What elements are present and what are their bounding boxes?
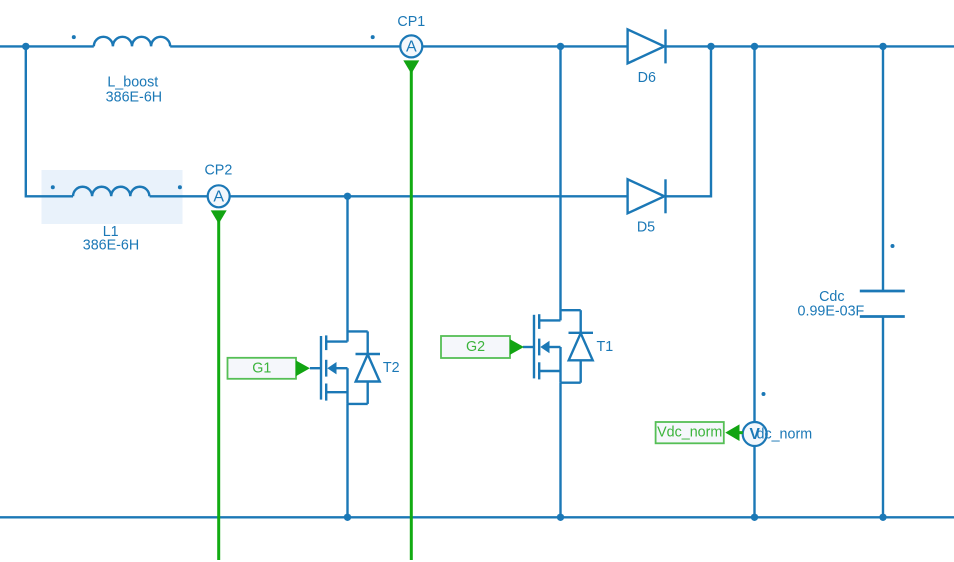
- junction: bottom rail / T1 source: [557, 514, 564, 521]
- wire: top rail from D6 cathode to right edge: [666, 45, 954, 47]
- junction: bottom rail / T2 source: [344, 514, 351, 521]
- current probe CP2 (ammeter): [208, 185, 230, 207]
- junction: top rail / T1 drain: [557, 43, 564, 50]
- svg-text:T1: T1: [597, 339, 614, 355]
- svg-text:G2: G2: [466, 339, 485, 355]
- polarity dot Vdc_norm: [762, 392, 766, 396]
- wire: row-2 rail from L1 through CP2 to D5 anode: [150, 195, 628, 197]
- diode D5: [628, 179, 666, 213]
- wire: T2 source down to bottom rail: [346, 404, 348, 517]
- junction: row-2 rail / T2 drain: [344, 193, 351, 200]
- gate signal tag G1: [228, 358, 310, 379]
- svg-text:386E-6H: 386E-6H: [106, 90, 162, 106]
- wire: top rail from L_boost through CP1 to D6 anode: [170, 45, 627, 47]
- transistor T2 (MOSFET with body diode): [310, 331, 380, 404]
- svg-text:CP1: CP1: [397, 14, 425, 30]
- svg-text:A: A: [406, 39, 417, 56]
- polarity dot L1: [51, 185, 55, 189]
- wire: bottom rail (negative bus): [0, 516, 954, 518]
- svg-text:L_boost: L_boost: [107, 75, 158, 91]
- wire: T1 drain rail up to top-rail junction: [559, 46, 561, 320]
- svg-text:D5: D5: [637, 220, 655, 236]
- polarity dot L_boost: [72, 35, 76, 39]
- wire: T2 drain rail up to row-2 junction: [346, 196, 348, 341]
- signal tag Vdc_norm: [656, 422, 743, 443]
- wire: D5 cathode up to top rail: [666, 46, 712, 196]
- junction: top rail / Vdc_norm probe: [751, 43, 758, 50]
- arrowhead CP1: [403, 60, 419, 73]
- capacitor Cdc bottom plate: [860, 315, 905, 318]
- svg-text:Vdc_norm: Vdc_norm: [657, 425, 722, 441]
- svg-text:CP2: CP2: [204, 162, 232, 178]
- wire: T1 source down to bottom rail: [559, 383, 561, 518]
- wire: Cdc bottom lead: [882, 317, 884, 518]
- junction: top rail / left vertical: [22, 43, 29, 50]
- wire: Vdc_norm probe vertical from top rail to bottom rail: [753, 46, 755, 517]
- svg-text:A: A: [213, 189, 224, 206]
- capacitor Cdc top plate: [860, 290, 905, 293]
- polarity dot Cdc: [891, 244, 895, 248]
- arrowhead CP2: [211, 210, 227, 223]
- diode D6: [628, 29, 666, 63]
- junction: bottom rail / Vdc_norm probe: [751, 514, 758, 521]
- polarity dot CP1: [371, 35, 375, 39]
- current probe CP1 (ammeter): [400, 35, 422, 57]
- inductor L_boost (4-arc coil): [94, 37, 170, 47]
- svg-text:T2: T2: [383, 360, 400, 376]
- junction: top rail / Cdc: [879, 43, 886, 50]
- wire: top rail left segment (input to L_boost): [0, 45, 94, 47]
- wire: left vertical drop and row-2 lead into L1: [26, 46, 73, 196]
- svg-text:D6: D6: [638, 70, 656, 86]
- selection highlight behind inductor L1: [42, 170, 183, 224]
- svg-text:0.99E-03F: 0.99E-03F: [798, 304, 865, 320]
- junction: bottom rail / Cdc: [879, 514, 886, 521]
- polarity dot CP2: [178, 185, 182, 189]
- svg-text:386E-6H: 386E-6H: [83, 238, 139, 254]
- voltage probe Vdc_norm (voltmeter): [743, 422, 767, 446]
- transistor T1 (MOSFET with body diode): [523, 310, 593, 383]
- junction: top rail / D5 cathode riser: [707, 43, 714, 50]
- wire: CP1 green measurement lead: [410, 71, 413, 560]
- svg-text:G1: G1: [252, 360, 271, 376]
- inductor L1 (4-arc coil): [73, 187, 149, 197]
- wire: Cdc top lead: [882, 46, 884, 291]
- svg-text:dc_norm: dc_norm: [757, 427, 813, 443]
- gate signal tag G2: [441, 336, 524, 358]
- wire: CP2 green measurement lead: [217, 221, 220, 560]
